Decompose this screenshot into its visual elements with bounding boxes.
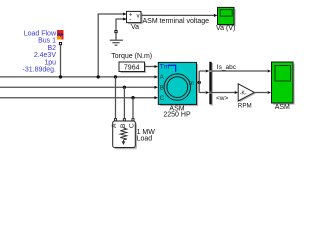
wire load C drop xyxy=(132,98,134,119)
wire m to bus selector top xyxy=(199,70,205,72)
svg-text:A: A xyxy=(111,123,118,128)
svg-text:B2: B2 xyxy=(47,45,56,52)
ground port square xyxy=(114,30,117,33)
wire w to gain xyxy=(212,92,235,94)
arrowhead into bus selector bottom xyxy=(206,91,210,94)
load flow bus icon B2 xyxy=(57,30,64,40)
voltage measurement block Va xyxy=(127,11,143,24)
arrowhead bus C into machine port C xyxy=(155,96,159,99)
arrowhead into scope ASM input 1 xyxy=(268,69,272,72)
svg-text:Is_abc: Is_abc xyxy=(217,64,237,71)
wire Va to scope xyxy=(141,14,214,16)
svg-text:1pu: 1pu xyxy=(44,59,56,66)
load flow bus port square xyxy=(59,42,62,45)
svg-text:ASM: ASM xyxy=(275,104,290,111)
svg-text:Torque (N.m): Torque (N.m) xyxy=(111,53,152,60)
gain RPM xyxy=(238,84,256,103)
arrowhead into V- port xyxy=(123,17,127,20)
node bus A / load A xyxy=(114,75,117,78)
wire m output xyxy=(197,82,200,84)
wire V- to ground xyxy=(116,19,127,30)
svg-text:2.4e3V: 2.4e3V xyxy=(34,52,57,59)
arrowhead bus A into machine port A xyxy=(155,75,159,78)
wire torque to Tm xyxy=(145,66,155,68)
wire gain to scope xyxy=(254,92,267,94)
wire bus C xyxy=(0,97,155,99)
wire load flow bus drop xyxy=(60,45,62,77)
node bus C / load C xyxy=(131,96,134,99)
arrowhead into scope Va (V) xyxy=(214,14,218,17)
svg-text:7964: 7964 xyxy=(124,64,140,71)
node m branch xyxy=(198,81,201,84)
svg-text:Bus 1: Bus 1 xyxy=(38,38,56,45)
load resistor zigzag xyxy=(120,128,127,140)
svg-text:Tm: Tm xyxy=(160,63,169,70)
wire bus A xyxy=(0,76,155,78)
arrowhead into gain RPM xyxy=(235,91,239,94)
load arrow down xyxy=(123,140,125,142)
arrowhead into scope ASM input 2 xyxy=(268,91,272,94)
wire load B drop xyxy=(123,87,125,118)
node bus B / load B xyxy=(123,86,126,89)
svg-text:-31.89deg.: -31.89deg. xyxy=(23,67,57,74)
load port square B xyxy=(123,118,126,121)
arrowhead into V+ port xyxy=(123,12,127,15)
svg-text:B: B xyxy=(160,86,164,92)
svg-text:2250 HP: 2250 HP xyxy=(163,112,191,119)
load block 1 MW xyxy=(111,121,137,149)
machine ASM 2250 HP xyxy=(158,62,198,106)
svg-text:C: C xyxy=(160,96,165,102)
wire Is_abc xyxy=(212,70,267,72)
load port square C xyxy=(132,118,135,121)
scope Va (V) xyxy=(218,7,236,26)
wire m branch vertical xyxy=(198,71,200,93)
svg-text:B: B xyxy=(120,124,127,128)
svg-text:<w>: <w> xyxy=(216,95,228,102)
svg-text:-: - xyxy=(129,16,131,23)
machine rotor circles xyxy=(164,74,190,100)
wire load A drop xyxy=(115,77,117,118)
ground symbol xyxy=(110,33,123,45)
node bus A / load flow xyxy=(59,75,62,78)
constant block 7964 xyxy=(119,62,146,73)
svg-text:m: m xyxy=(189,81,194,87)
arrowhead into bus selector top xyxy=(206,69,210,72)
bus selector xyxy=(209,62,213,106)
svg-text:Load: Load xyxy=(137,135,153,142)
wire m to bus selector bottom xyxy=(199,92,205,94)
machine Tm blue link xyxy=(168,65,176,72)
svg-text:-K-: -K- xyxy=(240,90,247,96)
svg-text:v: v xyxy=(137,14,140,20)
arrowhead bus B into machine port B xyxy=(155,86,159,89)
svg-text:Va (V): Va (V) xyxy=(216,25,235,32)
svg-text:RPM: RPM xyxy=(238,102,252,109)
scope ASM xyxy=(272,62,295,105)
wire V+ input xyxy=(98,14,123,77)
node bus A / V+ xyxy=(97,75,100,78)
load port square A xyxy=(114,118,117,121)
svg-text:Load Flow: Load Flow xyxy=(24,31,57,38)
arrowhead into machine Tm xyxy=(155,65,159,68)
wire bus B xyxy=(0,86,155,88)
svg-text:A: A xyxy=(160,75,164,81)
svg-text:C: C xyxy=(128,123,135,128)
svg-text:ASM terminal voltage: ASM terminal voltage xyxy=(143,18,210,25)
svg-text:Va: Va xyxy=(131,24,139,31)
